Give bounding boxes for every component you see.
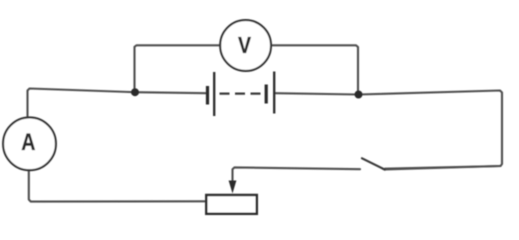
battery B1 cell 2 negative plate (short thick) bbox=[265, 85, 268, 104]
wire ammeter bottom branch bbox=[29, 171, 205, 202]
battery B1 cell 2 positive plate (long thin) bbox=[273, 72, 275, 114]
svg-text:A: A bbox=[21, 128, 35, 155]
wire rheostat tap horizontal bbox=[233, 167, 361, 186]
node junction dot right bbox=[355, 91, 363, 99]
battery B1 dashed link bbox=[220, 92, 261, 94]
voltmeter V bbox=[220, 20, 271, 71]
battery B1 cell 1 positive plate (long thin) bbox=[213, 72, 215, 116]
rheostat R1 box bbox=[206, 195, 256, 214]
wire voltmeter branch left bbox=[135, 45, 221, 91]
ammeter A bbox=[3, 117, 56, 170]
wire switch right segment bbox=[385, 166, 501, 170]
node junction dot left bbox=[131, 88, 139, 96]
wire left end of top rail down to ammeter bbox=[28, 89, 206, 118]
svg-text:V: V bbox=[238, 33, 252, 59]
wire right section of top rail bbox=[275, 91, 502, 169]
switch S1 blade bbox=[362, 158, 385, 169]
battery B1 cell 1 negative plate (short thick) bbox=[206, 86, 209, 105]
wire voltmeter branch right bbox=[271, 45, 358, 93]
rheostat R1 wiper arrowhead bbox=[229, 181, 237, 194]
